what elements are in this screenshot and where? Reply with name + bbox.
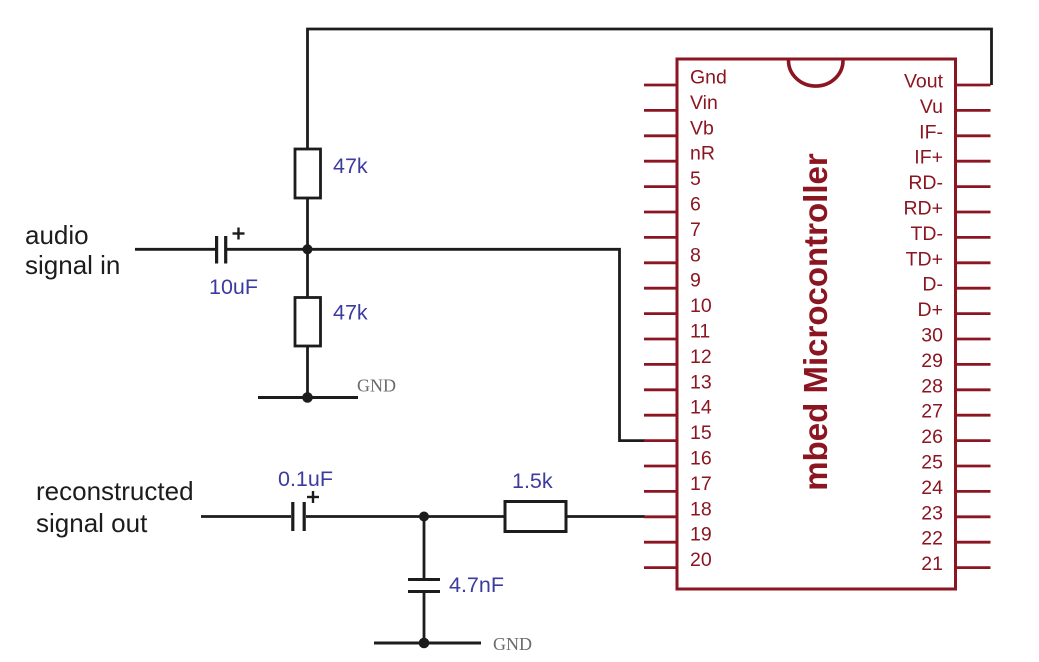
svg-text:10uF: 10uF	[209, 275, 258, 299]
pin stub right IF-	[956, 134, 991, 137]
svg-text:4.7nF: 4.7nF	[449, 573, 504, 597]
capacitor C1 10uF	[215, 236, 218, 264]
pin stub right D-	[956, 287, 991, 290]
wire C2 through node B to R3	[306, 515, 505, 518]
svg-text:14: 14	[690, 397, 712, 419]
U1 orientation notch	[789, 61, 844, 87]
svg-text:5: 5	[690, 168, 701, 190]
wire C1 through node A to pin 15	[227, 249, 645, 440]
wire node A to R2 top	[306, 249, 309, 298]
svg-text:TD-: TD-	[911, 223, 944, 245]
svg-text:1.5k: 1.5k	[512, 469, 553, 493]
pin stub right 29	[956, 363, 991, 366]
pin stub left 14	[644, 414, 677, 417]
svg-text:15: 15	[690, 422, 712, 444]
pin stub left 13	[644, 388, 677, 391]
svg-text:GND: GND	[357, 376, 396, 396]
C1 polarity plus	[233, 232, 245, 234]
ground GND2 junction dot	[419, 638, 430, 649]
svg-text:47k: 47k	[333, 154, 368, 178]
wire R3 to pin 18	[566, 515, 645, 518]
pin stub left 8	[644, 261, 677, 264]
svg-text:23: 23	[921, 502, 943, 524]
pin stub right 24	[956, 490, 991, 493]
capacitor C3 4.7nF	[408, 578, 440, 581]
pin stub right Vout	[956, 84, 991, 87]
wire R1 bottom to node A	[306, 198, 309, 249]
svg-text:18: 18	[690, 498, 712, 520]
op-amp/IC U1 mbed Microcontroller body	[677, 59, 956, 589]
capacitor C2 0.1uF	[291, 502, 294, 531]
svg-text:mbed Microcontroller: mbed Microcontroller	[797, 153, 834, 491]
ground GND1 junction dot	[302, 392, 313, 403]
pin stub left 6	[644, 211, 677, 214]
svg-text:Vin: Vin	[690, 92, 718, 114]
pin stub right RD-	[956, 185, 991, 188]
svg-text:IF+: IF+	[914, 147, 943, 169]
svg-text:TD+: TD+	[906, 248, 943, 270]
svg-text:28: 28	[921, 375, 943, 397]
svg-text:reconstructed: reconstructed	[36, 476, 194, 506]
pin stub left 11	[644, 338, 677, 341]
resistor R3 1.5k	[505, 502, 566, 532]
pin stub right TD+	[956, 261, 991, 264]
svg-text:GND: GND	[493, 634, 532, 654]
svg-text:Vout: Vout	[904, 71, 944, 93]
resistor R2 47k	[295, 298, 321, 347]
svg-text:nR: nR	[690, 143, 715, 165]
svg-text:22: 22	[921, 528, 943, 550]
svg-text:6: 6	[690, 194, 701, 216]
pin stub right IF+	[956, 160, 991, 163]
pin stub left Vb	[644, 134, 677, 137]
svg-text:19: 19	[690, 524, 712, 546]
pin stub right 30	[956, 338, 991, 341]
pin stub left 17	[644, 490, 677, 493]
wire audio input to C1	[135, 248, 215, 251]
wire top feedback from R1 top to Vout pin	[308, 29, 992, 150]
svg-text:7: 7	[690, 219, 701, 241]
svg-text:16: 16	[690, 448, 712, 470]
svg-text:47k: 47k	[333, 301, 368, 325]
pin stub left Gnd	[644, 84, 677, 87]
svg-text:13: 13	[690, 371, 712, 393]
pin stub right TD-	[956, 236, 991, 239]
pin stub left 18	[644, 515, 677, 518]
svg-text:RD+: RD+	[903, 198, 943, 220]
pin stub right 21	[956, 566, 991, 569]
pin stub left 19	[644, 541, 677, 544]
svg-text:21: 21	[921, 553, 943, 575]
pin stub left 5	[644, 185, 677, 188]
svg-text:audio: audio	[25, 220, 89, 250]
svg-text:D+: D+	[918, 299, 943, 321]
pin stub right 26	[956, 439, 991, 442]
pin stub right 22	[956, 541, 991, 544]
svg-text:30: 30	[921, 325, 943, 347]
node A junction dot	[303, 244, 313, 254]
wire R2 bottom to ground	[306, 346, 309, 398]
svg-text:24: 24	[921, 477, 943, 499]
svg-text:27: 27	[921, 401, 943, 423]
pin stub right 25	[956, 465, 991, 468]
ground GND1 bar	[258, 396, 358, 399]
svg-text:12: 12	[690, 346, 712, 368]
wire signal out to C2	[201, 515, 291, 518]
pin stub right RD+	[956, 211, 991, 214]
pin stub left 10	[644, 312, 677, 315]
svg-text:Vu: Vu	[920, 96, 943, 118]
svg-text:signal out: signal out	[36, 508, 148, 538]
pin stub right Vu	[956, 109, 991, 112]
pin stub left 9	[644, 287, 677, 290]
svg-text:10: 10	[690, 295, 712, 317]
svg-text:8: 8	[690, 244, 701, 266]
svg-text:Vb: Vb	[690, 117, 714, 139]
node B junction dot	[419, 512, 429, 522]
wire node B down to C3	[423, 517, 426, 579]
wire C3 to ground	[423, 592, 426, 643]
pin stub left Vin	[644, 109, 677, 112]
C2 polarity plus	[307, 496, 319, 498]
svg-text:20: 20	[690, 549, 712, 571]
svg-text:Gnd: Gnd	[690, 67, 727, 89]
pin stub left nR	[644, 160, 677, 163]
pin stub left 16	[644, 465, 677, 468]
ground GND2 bar	[374, 642, 481, 645]
svg-text:29: 29	[921, 350, 943, 372]
svg-text:signal in: signal in	[25, 250, 120, 280]
pin stub left 7	[644, 236, 677, 239]
svg-text:RD-: RD-	[908, 172, 943, 194]
pin stub right D+	[956, 312, 991, 315]
svg-text:11: 11	[690, 321, 710, 343]
pin stub left 20	[644, 566, 677, 569]
pin stub right 28	[956, 388, 991, 391]
resistor R1 47k	[295, 149, 321, 198]
pin stub right 23	[956, 515, 991, 518]
svg-text:26: 26	[921, 426, 943, 448]
pin stub left 12	[644, 363, 677, 366]
svg-text:D-: D-	[922, 274, 943, 296]
svg-text:IF-: IF-	[919, 121, 943, 143]
pin stub left 15	[644, 439, 677, 442]
pin stub right 27	[956, 414, 991, 417]
svg-text:0.1uF: 0.1uF	[278, 467, 333, 491]
svg-text:17: 17	[690, 473, 712, 495]
svg-text:9: 9	[690, 270, 701, 292]
svg-text:25: 25	[921, 452, 943, 474]
